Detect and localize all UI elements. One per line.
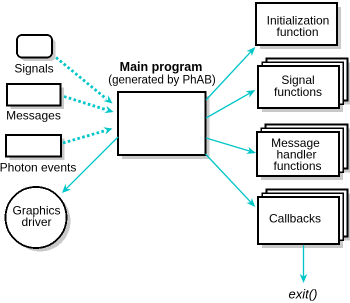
- svg-text:driver: driver: [21, 215, 51, 229]
- svg-text:Callbacks: Callbacks: [269, 212, 321, 226]
- label exit(): [289, 287, 318, 302]
- box Signals (rounded): [14, 35, 55, 76]
- stack Signal functions: [258, 58, 350, 112]
- arrow Main to Graphics driver: [62, 137, 118, 193]
- svg-text:Messages: Messages: [6, 109, 61, 123]
- stack Callbacks: [258, 189, 350, 248]
- box Main program: [118, 92, 210, 159]
- stack Message handler functions: [257, 124, 350, 180]
- arrow Callbacks to exit: [300, 245, 308, 283]
- svg-text:Main program: Main program: [120, 60, 203, 74]
- svg-text:functions: functions: [274, 85, 322, 99]
- dashed arrow Photon events to Main: [63, 127, 113, 143]
- arrow Main to Message handler functions: [206, 138, 256, 154]
- ellipse Graphics driver: [6, 187, 71, 252]
- svg-text:exit(): exit(): [289, 287, 318, 302]
- svg-text:function: function: [276, 25, 318, 39]
- arrow Main to Callbacks: [206, 154, 256, 207]
- title Main program: [108, 60, 216, 86]
- box Initialization function: [256, 3, 341, 49]
- dashed arrow Signals to Main: [56, 58, 113, 104]
- svg-text:Photon events: Photon events: [0, 161, 76, 175]
- arrow Main to Signal functions: [206, 90, 255, 118]
- dashed arrow Messages to Main: [64, 97, 114, 114]
- arrow Main to Initialization: [206, 47, 255, 100]
- svg-text:(generated by PhAB): (generated by PhAB): [108, 74, 216, 86]
- svg-text:Signals: Signals: [14, 62, 53, 76]
- svg-text:functions: functions: [273, 159, 321, 173]
- box Photon events: [0, 135, 76, 175]
- box Messages: [6, 84, 64, 123]
